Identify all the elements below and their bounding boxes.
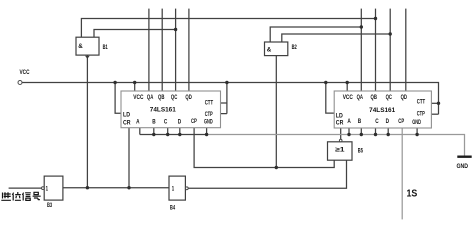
svg-text:CR: CR [336, 119, 344, 126]
wire B2 input2 from QC2 [282, 34, 390, 42]
svg-text:74LS161: 74LS161 [369, 107, 396, 114]
svg-text:B4: B4 [170, 205, 175, 212]
svg-text:A: A [347, 118, 351, 125]
svg-text:D: D [178, 119, 182, 126]
svg-text:CP: CP [398, 118, 404, 125]
svg-text:CTT: CTT [205, 100, 214, 107]
wire B2 input1 from QA2 [270, 27, 361, 42]
node VCC terminal [18, 81, 22, 85]
wire A2 stub [348, 128, 350, 135]
wire QD1 up [188, 9, 190, 91]
wire B2 output down [275, 56, 277, 168]
wire A1 stub [139, 128, 141, 135]
svg-text:CR: CR [123, 119, 131, 126]
wire LD1 to VCC [115, 83, 121, 114]
svg-text:GND: GND [204, 119, 213, 126]
svg-text:QB: QB [158, 94, 165, 101]
svg-text:74LS161: 74LS161 [150, 107, 177, 114]
svg-text:≥1: ≥1 [335, 146, 345, 153]
wire carry line B3 to B4 [63, 187, 169, 189]
wire QC2 up [389, 9, 391, 91]
svg-text:QD: QD [185, 94, 192, 101]
IC U1 74LS161 counter 1 [121, 91, 221, 128]
wire QB1 up [161, 9, 163, 91]
svg-text:VCC: VCC [20, 69, 30, 76]
wire GND1 stub [206, 128, 208, 135]
wire VCC rail [22, 83, 439, 115]
wire B4 output to B5 [188, 160, 346, 188]
IC U2 74LS161 counter 2 [334, 91, 431, 128]
wire CP1 net to B5 [194, 128, 334, 168]
svg-text:1: 1 [46, 185, 49, 192]
svg-text:1: 1 [172, 185, 175, 192]
wire GND2 stub [416, 128, 418, 135]
node junction dots [86, 17, 440, 190]
svg-text:QA: QA [147, 94, 154, 101]
svg-text:B3: B3 [47, 202, 52, 209]
svg-text:QC: QC [386, 94, 393, 101]
svg-text:QB: QB [371, 94, 378, 101]
svg-text:QA: QA [357, 94, 364, 101]
svg-text:VCC: VCC [343, 94, 354, 101]
wire CTT CTP chip1 to VCC [221, 83, 227, 114]
wire B1 input1 from QB2 [81, 19, 375, 38]
wire C2 stub [375, 128, 377, 135]
svg-text:CTP: CTP [205, 111, 213, 118]
svg-text:B2: B2 [292, 44, 297, 51]
inverter B3 [42, 176, 63, 209]
wire CTP2 stub [431, 113, 438, 115]
svg-text:B: B [358, 118, 362, 125]
svg-text:VCC: VCC [133, 94, 144, 101]
wire QA2 up [360, 9, 362, 91]
wire VCC pin chip1 [134, 83, 136, 92]
wire load bus gray part to ground [207, 135, 465, 156]
ground [457, 155, 471, 157]
wire B1 output down [86, 55, 88, 188]
wire B2pin stub [360, 128, 362, 135]
svg-text:QD: QD [401, 94, 408, 101]
wire B1pin stub [153, 128, 155, 135]
wire QB2 up [375, 9, 377, 91]
inverter B4 [169, 176, 188, 211]
svg-text:1S: 1S [407, 188, 418, 200]
or-gate B5 [328, 139, 364, 160]
wire QD2 up [405, 9, 407, 91]
svg-text:A: A [136, 119, 140, 126]
wire CTT2 stub [431, 102, 438, 104]
svg-text:GND: GND [412, 119, 421, 126]
svg-text:&: & [267, 47, 272, 54]
wire CP2 1S line [401, 128, 403, 219]
svg-text:GND: GND [457, 163, 469, 170]
svg-text:B: B [152, 119, 156, 126]
wire CR2 to B5 bubble [340, 128, 342, 139]
svg-text:CTT: CTT [417, 99, 426, 106]
wire QA1 up [148, 9, 150, 91]
wire C1 stub [167, 128, 169, 135]
node 进位信号 carry signal label [1, 192, 40, 201]
and-gate B1 [76, 37, 108, 59]
wire load bus black part [140, 134, 207, 136]
svg-text:&: & [78, 43, 83, 50]
and-gate B2 [265, 42, 298, 56]
wire LD2 to VCC [326, 83, 334, 114]
wire D1 stub [179, 128, 181, 135]
wire QC1 up [175, 9, 177, 91]
svg-text:QC: QC [171, 94, 178, 101]
wire D2 stub [387, 128, 389, 135]
svg-text:C: C [375, 118, 379, 125]
svg-text:CTP: CTP [417, 111, 425, 118]
svg-text:LD: LD [123, 111, 130, 118]
wire B1 input2 from QC1 [94, 30, 176, 38]
wire VCC pin chip2 [346, 83, 348, 92]
wire CR1 down [128, 128, 130, 188]
svg-text:B1: B1 [103, 44, 108, 51]
svg-text:C: C [164, 119, 168, 126]
svg-text:CP: CP [191, 118, 197, 125]
wire B3 input [9, 187, 42, 189]
svg-text:D: D [386, 118, 390, 125]
svg-text:B5: B5 [358, 147, 363, 154]
svg-text:LD: LD [336, 112, 343, 119]
